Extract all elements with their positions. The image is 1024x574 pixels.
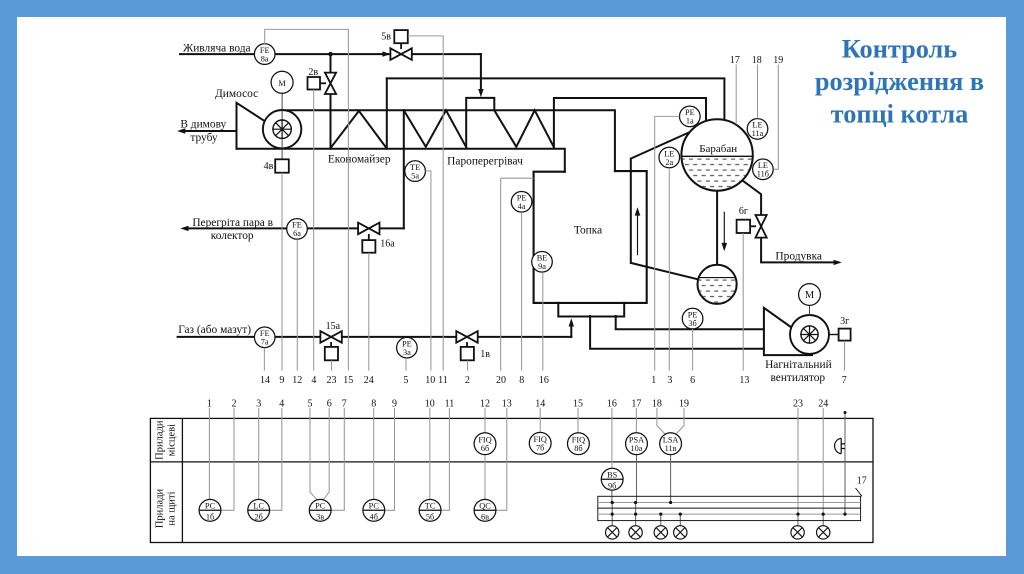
svg-text:9б: 9б [608, 481, 616, 490]
svg-text:4в: 4в [264, 161, 274, 172]
air duct upper line [616, 316, 764, 329]
arrows (flow direction) [177, 51, 842, 326]
wire 3 (LE 2а) [668, 168, 670, 371]
wire 15 (FE 8а) [265, 29, 349, 370]
svg-text:15: 15 [343, 375, 353, 386]
instrument BS 9б [601, 468, 623, 490]
wire 18 (LE 11а) [757, 65, 759, 119]
svg-text:7: 7 [842, 375, 847, 386]
signal wires (grey) [264, 29, 844, 370]
svg-text:6а: 6а [293, 229, 301, 238]
svg-text:Прилади: Прилади [155, 420, 166, 460]
panel box [150, 418, 873, 542]
duct top line [282, 110, 615, 171]
furnace (Топка) walls [534, 171, 647, 303]
wire col14 [539, 408, 541, 432]
wire gas riser into furnace [570, 324, 572, 337]
wire gas line (Газ (або мазут)) [178, 336, 572, 338]
wire feedwater line (Живляча вода) [180, 53, 481, 55]
svg-text:8: 8 [519, 375, 524, 386]
svg-text:4: 4 [311, 375, 316, 386]
wire numbers top row [730, 55, 783, 66]
arrow to chimney [177, 128, 185, 133]
svg-text:19: 19 [679, 399, 689, 410]
bell symbol [835, 438, 845, 454]
svg-text:5: 5 [403, 375, 408, 386]
wire 20 (furnace tap) [501, 178, 534, 370]
instrument РС 3в [309, 499, 331, 521]
panel column numbers [207, 399, 828, 410]
main equipment labels [178, 43, 832, 385]
wire col11 [441, 408, 449, 510]
svg-text:1б: 1б [206, 512, 214, 521]
wire 19 (LE 11б) [773, 65, 778, 170]
svg-text:11: 11 [445, 399, 455, 410]
drum (Барабан) [681, 119, 753, 191]
svg-text:8а: 8а [261, 54, 269, 63]
instrument РЕ 3а [397, 337, 418, 358]
svg-text:17: 17 [730, 55, 740, 66]
wire 2 (актуатор 1в) [467, 360, 469, 370]
wire col2 [221, 408, 234, 510]
wire 6 (РЕ 3б) [692, 329, 694, 371]
svg-text:РС: РС [369, 501, 380, 510]
instrument FIQ 8б [568, 433, 590, 455]
svg-text:23: 23 [793, 399, 803, 410]
actuator 4в (димосос vane) [275, 159, 289, 172]
svg-text:1: 1 [651, 375, 656, 386]
svg-text:1: 1 [207, 399, 212, 410]
svg-text:топці котла: топці котла [831, 100, 969, 129]
svg-text:17: 17 [631, 399, 641, 410]
lamps [606, 526, 830, 539]
wire 24 (актуатор 16а) [368, 253, 370, 371]
economizer coil [330, 78, 387, 148]
wire col10 [429, 408, 431, 499]
svg-text:11: 11 [438, 375, 448, 386]
valve 6г (blowdown, vertical) [737, 215, 767, 238]
svg-text:6: 6 [327, 399, 332, 410]
svg-text:10: 10 [425, 399, 435, 410]
svg-text:16: 16 [539, 375, 549, 386]
wire LSA output [670, 455, 672, 503]
arrow steam to collector [180, 226, 188, 231]
instrument ТЕ 5а [405, 161, 426, 182]
fan2 impeller [790, 305, 829, 354]
bus connection dots [611, 411, 847, 516]
instrument FE 6а [287, 219, 308, 240]
svg-text:23: 23 [327, 375, 337, 386]
instrument РС 1б [199, 499, 221, 521]
svg-text:QC: QC [479, 501, 491, 510]
wire 10 (ТЕ 5а) [426, 171, 431, 371]
svg-text:4: 4 [279, 399, 284, 410]
instrument РЕ 1а [680, 106, 701, 127]
svg-text:7б: 7б [536, 444, 544, 453]
svg-text:24: 24 [818, 399, 828, 410]
svg-text:5а: 5а [411, 171, 419, 180]
wire 4 (актуатор 2в) [313, 90, 315, 371]
svg-text:11в: 11в [665, 444, 677, 453]
arrow gas into furnace [569, 318, 574, 326]
bus label 17 [856, 476, 867, 497]
svg-text:РС: РС [315, 501, 326, 510]
arrow before valve 5в [382, 51, 390, 56]
svg-text:6: 6 [690, 375, 695, 386]
svg-text:10а: 10а [631, 444, 643, 453]
wire col16 [611, 408, 613, 468]
svg-text:3: 3 [667, 375, 672, 386]
wire 7 (актуатор 3г) [844, 341, 846, 371]
svg-text:Газ (або мазут): Газ (або мазут) [178, 324, 251, 336]
svg-text:13: 13 [502, 399, 512, 410]
svg-text:10: 10 [425, 375, 435, 386]
svg-text:колектор: колектор [211, 230, 254, 242]
arrow blowdown (Продувка) [834, 260, 842, 265]
wire 12 (FE 6а) [296, 239, 298, 370]
frame bottom [0, 556, 1024, 574]
wire col19 [677, 408, 685, 434]
instrument LSA 11в [660, 433, 682, 455]
motor M1 (димосос) [271, 71, 293, 93]
wire blowdown from drum through 6г [742, 180, 836, 262]
wire 11 (актуатор 5в) [408, 36, 443, 371]
svg-text:18: 18 [652, 399, 662, 410]
instrument РЕ 3б [682, 308, 703, 329]
svg-text:Барабан: Барабан [699, 143, 737, 155]
arrow downcomer down [722, 212, 728, 252]
wire col4 [270, 408, 282, 510]
arrow into attemperator [478, 89, 483, 97]
svg-text:8: 8 [371, 399, 376, 410]
superheater coil right group [494, 110, 554, 147]
svg-text:2в: 2в [308, 67, 318, 78]
svg-text:2: 2 [232, 399, 237, 410]
svg-text:2а: 2а [665, 158, 673, 167]
wire 1 (РЕ 1а) [655, 116, 680, 370]
svg-text:5: 5 [308, 399, 313, 410]
svg-text:20: 20 [496, 375, 506, 386]
wire 16 (ВЕ 9а) [542, 272, 544, 370]
svg-text:17: 17 [857, 476, 867, 487]
lower drum [697, 265, 738, 305]
svg-text:7а: 7а [261, 338, 269, 347]
svg-text:7: 7 [342, 399, 347, 410]
svg-text:3в: 3в [316, 512, 324, 521]
fan2 housing (нагнітальний вентилятор) [764, 308, 812, 355]
instrument ВЕ 9а [532, 251, 553, 272]
wire drum steam outlet to superheater [554, 98, 706, 148]
svg-text:14: 14 [535, 399, 545, 410]
svg-text:18: 18 [752, 55, 762, 66]
svg-text:трубу: трубу [190, 132, 218, 144]
wire col17 [635, 408, 637, 433]
wire col8 [373, 408, 375, 499]
svg-text:14: 14 [260, 375, 270, 386]
svg-text:9: 9 [279, 375, 284, 386]
arrow riser up [635, 207, 641, 255]
svg-text:місцеві: місцеві [167, 424, 178, 456]
instrument РС 4б [363, 499, 385, 521]
svg-text:15а: 15а [326, 321, 341, 332]
furnace pedestal [558, 303, 624, 317]
panel column wires [209, 408, 845, 526]
svg-text:4б: 4б [370, 512, 378, 521]
svg-text:на щиті: на щиті [167, 491, 178, 525]
wire 17 (drum tap) [735, 65, 737, 125]
svg-text:5в: 5в [381, 31, 391, 42]
svg-text:Димосос: Димосос [215, 88, 258, 100]
wire col1 [208, 408, 210, 499]
wire superheater outlet down to collector line [403, 110, 405, 228]
frame top [0, 0, 1024, 17]
instrument QC 6в [474, 499, 496, 521]
svg-text:3: 3 [256, 399, 261, 410]
wire col12 [484, 408, 486, 499]
wire col15 [577, 408, 579, 433]
instrument ТС 5б [419, 499, 441, 521]
svg-text:M: M [278, 79, 286, 88]
svg-text:BS: BS [607, 470, 618, 479]
wire economizer outlet to drum [387, 78, 725, 120]
wire col5 [310, 408, 317, 500]
svg-text:3г: 3г [840, 316, 849, 327]
svg-text:M: M [805, 290, 815, 301]
svg-text:LC: LC [253, 501, 264, 510]
wire 9 (актуатор 4в) [281, 173, 283, 371]
signal bus [598, 496, 861, 520]
instrument LE 11а [747, 119, 768, 140]
svg-text:6б: 6б [481, 444, 489, 453]
instrument FIQ 6б [474, 433, 496, 455]
wire col24 [822, 408, 824, 514]
wire col23 [797, 408, 799, 514]
svg-text:2б: 2б [255, 512, 263, 521]
wire col9 [385, 408, 395, 510]
fan1 housing (димосос) [237, 103, 265, 149]
wire bell drop [844, 413, 846, 515]
instrument circles (field) [254, 44, 820, 358]
svg-text:В димову: В димову [180, 119, 226, 131]
instrument FE 8а [254, 44, 275, 65]
svg-text:12: 12 [480, 399, 490, 410]
svg-text:Перегріта пара в: Перегріта пара в [192, 217, 273, 229]
wire feedwater drop through valve 2в to economizer [330, 54, 332, 148]
attemperator (пароохолоджувач) [466, 98, 494, 148]
wire 14 (FE 7а) [263, 348, 265, 371]
valve 16а (steam collector line) [358, 223, 379, 253]
svg-text:12: 12 [292, 375, 302, 386]
wire col13 [496, 408, 507, 510]
valve 5в (feedwater control) [390, 30, 411, 60]
svg-text:6г: 6г [739, 206, 748, 217]
valve 1в (gas line) [456, 331, 477, 360]
wire col18 [657, 408, 665, 434]
svg-text:Економайзер: Економайзер [328, 154, 391, 166]
instrument FIQ 7б [529, 432, 551, 454]
svg-text:ТС: ТС [425, 501, 436, 510]
svg-text:2: 2 [465, 375, 470, 386]
svg-text:Контроль: Контроль [842, 35, 957, 64]
wire 13 (актуатор 6г) [742, 233, 744, 371]
duct bottom line [237, 149, 565, 172]
valve 15а (gas line) [320, 331, 341, 360]
wire superheated steam line to collector [187, 227, 404, 229]
svg-text:3б: 3б [688, 319, 696, 328]
svg-text:Прилади: Прилади [155, 488, 166, 528]
frame left [0, 0, 17, 574]
svg-text:Пароперегрівач: Пароперегрівач [447, 155, 523, 167]
svg-text:4а: 4а [518, 202, 526, 211]
wire 5 (РЕ 3а) [405, 358, 407, 371]
riser channel line [631, 130, 700, 280]
valve 2в (vertical on feedwater drop) [308, 73, 337, 94]
instrument PSA 10а [626, 433, 648, 455]
svg-text:16а: 16а [380, 238, 395, 249]
svg-text:13: 13 [739, 375, 749, 386]
wire feedwater branch down to attemperator [480, 54, 482, 92]
svg-text:вентилятор: вентилятор [770, 372, 825, 384]
instrument FE 7а [254, 327, 275, 348]
svg-text:1а: 1а [686, 117, 694, 126]
instrument LE 2а [659, 147, 680, 168]
instrument LE 11б [753, 159, 774, 180]
actuator 3г (fan vane) [839, 329, 851, 341]
wire col6 [323, 408, 329, 500]
node feedwater junction [328, 52, 332, 56]
svg-text:Продувка: Продувка [775, 251, 822, 263]
svg-text:розрідження в: розрідження в [815, 67, 984, 96]
valve tag labels [264, 31, 850, 360]
svg-text:24: 24 [364, 375, 374, 386]
svg-text:Нагнітальний: Нагнітальний [765, 359, 832, 371]
instrument РЕ 4а [511, 192, 532, 213]
svg-text:6в: 6в [481, 512, 489, 521]
motor M2 (вентилятор) [799, 284, 821, 306]
svg-text:9а: 9а [538, 262, 546, 271]
wire numbers bottom row [260, 375, 847, 386]
downcomer pipe [716, 191, 718, 265]
superheater coil left group [404, 110, 466, 147]
title [815, 35, 984, 129]
wire lamp taps [612, 503, 680, 526]
svg-text:Живляча вода: Живляча вода [183, 43, 251, 55]
panel row label: Прилади на щиті [155, 488, 178, 528]
instrument LC 2б [248, 499, 270, 521]
wire col3 [258, 408, 260, 499]
wire fan2 outlet to 3г [829, 334, 839, 336]
air duct lower line [590, 316, 764, 349]
frame right [1006, 0, 1024, 574]
svg-text:5б: 5б [426, 512, 434, 521]
svg-text:15: 15 [573, 399, 583, 410]
svg-text:9: 9 [392, 399, 397, 410]
fan1 impeller (димосос) [263, 93, 301, 159]
wire col7 [331, 408, 344, 510]
wire flue gas exit line [184, 130, 237, 132]
svg-text:8б: 8б [574, 444, 582, 453]
svg-text:3а: 3а [403, 348, 411, 357]
panel instrument circles [199, 432, 681, 521]
svg-text:РС: РС [205, 501, 216, 510]
wire 8 (РЕ 4а) [521, 212, 523, 370]
svg-text:Топка: Топка [574, 225, 602, 237]
wire 23 (актуатор 15а) [331, 360, 333, 370]
svg-text:11б: 11б [757, 170, 769, 179]
svg-text:19: 19 [773, 55, 783, 66]
svg-text:11а: 11а [752, 129, 764, 138]
panel row label: Прилади місцеві [155, 420, 178, 460]
svg-text:1в: 1в [480, 349, 490, 360]
svg-text:16: 16 [607, 399, 617, 410]
